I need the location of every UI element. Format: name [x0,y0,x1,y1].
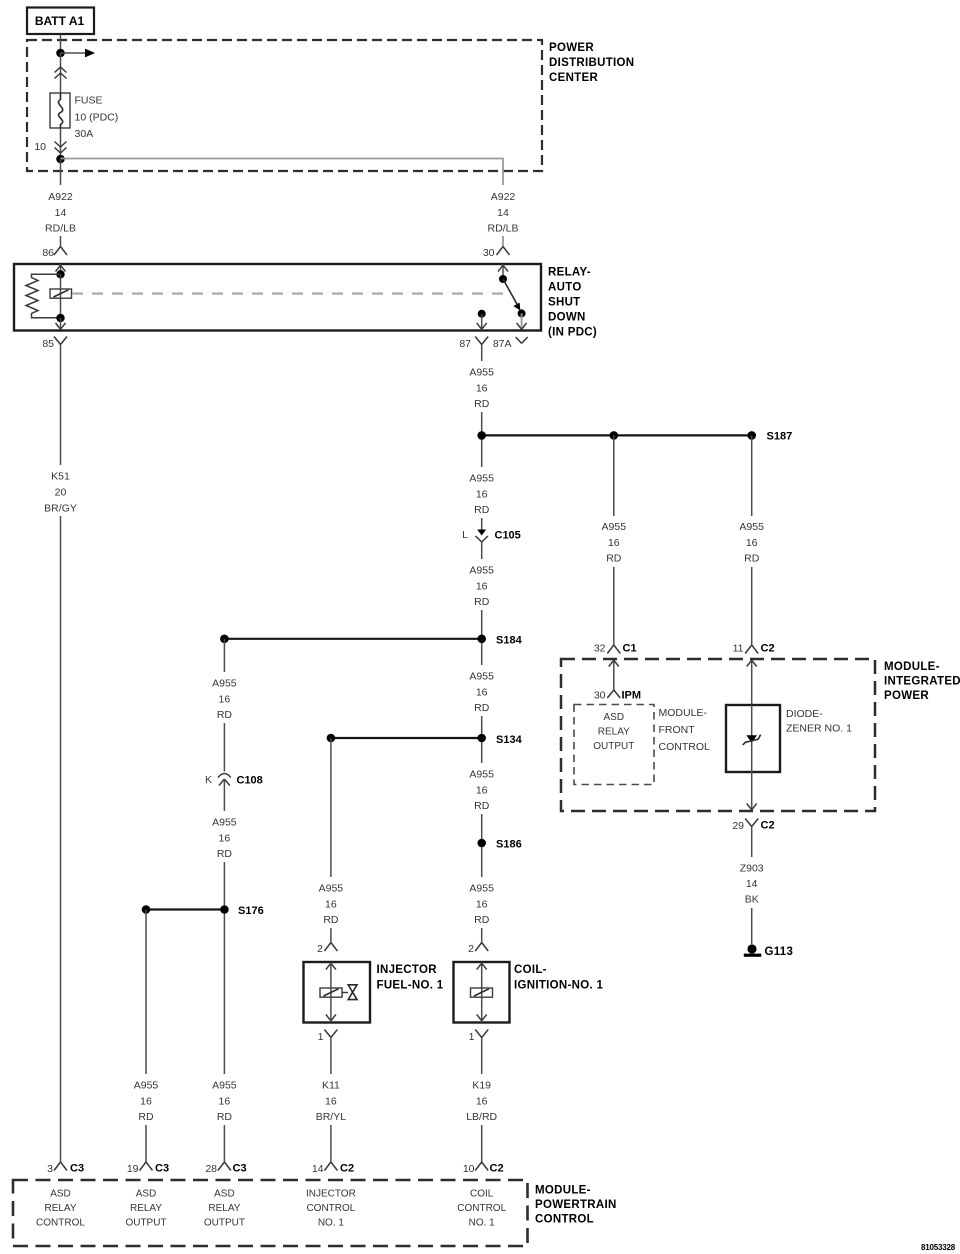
svg-text:BK: BK [745,894,759,906]
label RELAY-AUTO SHUT DOWN (IN PDC) [548,267,597,339]
svg-text:10: 10 [34,141,46,153]
svg-text:POWERTRAIN: POWERTRAIN [535,1199,617,1211]
svg-text:BATT A1: BATT A1 [35,14,85,28]
svg-text:A955: A955 [212,1080,237,1092]
label ASD RELAY CONTROL [36,1189,85,1229]
arrow feed to other circuits [61,49,96,58]
svg-text:SHUT: SHUT [548,297,581,309]
asd relay output inner dashed box [574,705,654,785]
svg-text:S187: S187 [767,431,793,443]
label COIL- IGNITION-NO. 1 [514,964,603,992]
wire label A955 16 RD (S187 to C2) [732,516,772,567]
wire label A955 16 RD (S134 to S186) [462,763,502,814]
svg-text:16: 16 [219,694,231,706]
svg-text:RD: RD [138,1111,154,1123]
label MODULE- POWERTRAIN CONTROL [535,1185,617,1226]
svg-text:C1: C1 [623,643,637,655]
injector solenoid coil [320,988,342,997]
svg-text:2: 2 [468,943,474,955]
svg-text:A955: A955 [469,473,494,485]
svg-text:30A: 30A [75,128,94,140]
svg-text:S184: S184 [496,635,523,647]
wire injector pin 1 to PCM pin 14 [330,1038,332,1163]
svg-text:C3: C3 [70,1163,84,1175]
svg-text:A955: A955 [469,769,494,781]
svg-text:CONTROL: CONTROL [306,1203,355,1214]
svg-text:2: 2 [317,943,323,955]
wire pin 29 to ground [751,827,753,945]
svg-text:16: 16 [140,1096,152,1108]
pin 1 connector injector [318,1030,338,1044]
connector C2 pin 10 [463,1162,504,1175]
connector C3 pin 3 [47,1162,84,1175]
svg-text:C2: C2 [761,643,775,655]
connector C2 pin 11 [733,643,775,655]
wire S176 to PCM pin 19 [145,910,147,1163]
splice line S176 [146,908,224,910]
svg-text:28: 28 [205,1163,217,1175]
svg-text:86: 86 [42,247,54,259]
svg-text:LB/RD: LB/RD [466,1111,497,1123]
svg-text:RD: RD [474,800,490,812]
svg-text:ASD: ASD [214,1189,235,1200]
svg-text:A955: A955 [469,883,494,895]
svg-text:RD: RD [217,848,233,860]
svg-text:14: 14 [746,878,758,890]
node S187 middle junction [610,431,619,440]
label DIODE- ZENER NO. 1 [786,708,852,735]
svg-text:3: 3 [47,1163,53,1175]
label MODULE- FRONT CONTROL [659,707,710,753]
svg-text:C2: C2 [340,1163,354,1175]
svg-text:RD: RD [217,1111,233,1123]
connector chevrons below fuse [55,142,67,154]
svg-text:MODULE-: MODULE- [884,661,940,673]
svg-text:16: 16 [476,581,488,593]
pin 2 connector coil [468,943,488,956]
wire BATT A1 to junction [60,35,62,54]
svg-text:ZENER NO. 1: ZENER NO. 1 [786,723,852,735]
svg-text:S176: S176 [238,905,264,917]
svg-text:RELAY: RELAY [598,727,630,738]
svg-text:A955: A955 [469,367,494,379]
svg-text:K: K [205,774,212,786]
pin 85 exit arrow [56,318,66,330]
svg-text:20: 20 [55,487,67,499]
label COIL CONTROL NO. 1 [457,1189,506,1229]
connector C3 pin 28 [205,1162,246,1175]
connector C2 pin 29 [732,819,774,833]
wire coil branch [60,274,62,318]
wire feed across PDC to relay pin 30 [61,159,504,248]
svg-text:K51: K51 [51,471,70,483]
svg-text:30: 30 [594,690,606,702]
svg-text:CONTROL: CONTROL [659,741,710,753]
svg-text:RD/LB: RD/LB [45,223,76,235]
svg-text:G113: G113 [765,946,794,958]
svg-text:87A: 87A [493,338,512,350]
wire junction to fuse [60,53,62,93]
svg-text:RD: RD [606,553,622,565]
IPM entry arrow pin 32 [609,660,619,690]
svg-text:A955: A955 [469,565,494,577]
node contact 87A [518,309,526,317]
node fuse output junction [56,155,65,164]
svg-text:16: 16 [219,1096,231,1108]
node S187 [747,431,756,440]
svg-text:INJECTOR: INJECTOR [306,1189,356,1200]
node battery feed junction [56,49,65,58]
svg-text:81053328: 81053328 [921,1243,956,1252]
svg-text:INJECTOR: INJECTOR [377,964,438,976]
node S186 [477,839,486,848]
svg-text:10: 10 [463,1163,475,1175]
svg-text:A955: A955 [212,817,237,829]
svg-text:INTEGRATED: INTEGRATED [884,676,960,688]
svg-text:MODULE-: MODULE- [659,707,708,719]
coil internal wire and arrows [477,962,487,1022]
svg-text:RELAY: RELAY [208,1203,240,1214]
wire S134 to injector pin 2 [330,738,332,943]
node S184 [477,635,486,644]
wire label A955 16 RD (C108 to S176) [205,811,245,862]
svg-text:A955: A955 [602,521,627,533]
svg-text:16: 16 [476,899,488,911]
pin 1 connector coil [469,1030,489,1044]
pin 87A connector [493,337,528,350]
svg-text:COIL-: COIL- [514,964,547,976]
svg-text:BR/YL: BR/YL [316,1111,347,1123]
svg-text:14: 14 [312,1163,324,1175]
svg-text:RELAY-: RELAY- [548,267,591,279]
svg-text:C2: C2 [490,1163,504,1175]
connector C3 pin 19 [127,1162,169,1175]
fuse F10 [50,93,70,128]
svg-text:85: 85 [42,338,54,350]
svg-text:16: 16 [608,537,620,549]
label ASD RELAY OUTPUT pin 19 [125,1189,166,1229]
pin 87 connector [459,337,488,351]
connector C105 pin L [462,519,521,542]
wire label A955 16 RD (S187 to C1) [594,516,634,567]
wire label Z903 14 BK [732,857,772,908]
wire label A922 14 RD/LB (right) [482,185,525,236]
node S187 left junction [477,431,486,440]
resistor relay coil shunt [26,274,61,318]
svg-text:16: 16 [476,383,488,395]
connector IPM pin 30 [594,690,641,702]
svg-text:A922: A922 [491,191,516,203]
label MODULE- INTEGRATED POWER [884,661,960,702]
relay actuator dashed link [72,292,505,294]
svg-text:11: 11 [733,643,744,655]
wire label A955 16 RD (C105 to S184) [462,559,502,610]
svg-text:C2: C2 [761,820,775,832]
svg-text:Z903: Z903 [740,863,764,875]
value label FUSE 10 (PDC) 30A [75,95,119,141]
svg-text:A955: A955 [212,678,237,690]
svg-text:RD: RD [217,709,233,721]
svg-text:32: 32 [594,643,606,655]
svg-text:RELAY: RELAY [130,1203,162,1214]
svg-text:29: 29 [732,820,744,832]
svg-text:16: 16 [219,833,231,845]
svg-text:(IN PDC): (IN PDC) [548,327,597,339]
wire C108 to PCM pin 28 [223,779,225,1163]
zener diode element D1 [743,705,761,772]
svg-text:14: 14 [497,207,509,219]
svg-text:A955: A955 [739,521,764,533]
svg-text:CENTER: CENTER [549,72,598,84]
wire pin 85 to PCM pin 3 [60,345,62,1163]
wire label A955 16 RD (S134 to injector) [311,877,351,928]
pin 85 connector [42,337,67,351]
svg-text:16: 16 [476,687,488,699]
connector C2 pin 14 [312,1162,354,1175]
svg-text:RD: RD [474,596,490,608]
svg-text:OUTPUT: OUTPUT [125,1218,166,1229]
module integrated power dashed box [561,659,875,811]
svg-text:RD: RD [474,702,490,714]
label ASD RELAY OUTPUT [593,712,634,752]
svg-text:CONTROL: CONTROL [535,1214,594,1226]
svg-text:RELAY: RELAY [44,1203,76,1214]
ground G113 [744,944,793,958]
wire label K11 16 BR/YL [309,1074,353,1125]
svg-text:RD: RD [474,504,490,516]
pin 86 entry arrow [56,264,66,274]
module powertrain control dashed box [13,1180,528,1246]
svg-text:OUTPUT: OUTPUT [593,741,634,752]
wire coil pin 1 to PCM pin 10 [481,1038,483,1163]
svg-text:NO. 1: NO. 1 [318,1218,345,1229]
svg-text:10 (PDC): 10 (PDC) [75,112,119,124]
injector fuel no.1 box [304,962,371,1023]
svg-text:COIL: COIL [470,1189,494,1200]
node switch common 30 [499,275,507,283]
wire label K51 20 BR/GY [39,465,82,516]
wire pin 87 down to C105 [481,345,483,520]
label INJECTOR CONTROL NO. 1 [306,1189,356,1229]
svg-text:IGNITION-NO. 1: IGNITION-NO. 1 [514,980,603,992]
diode zener no.1 box [726,705,780,772]
svg-text:C3: C3 [233,1163,247,1175]
battery feed box BATT A1 [27,8,94,35]
svg-text:DOWN: DOWN [548,312,586,324]
label POWER DISTRIBUTION CENTER [549,42,634,84]
svg-text:A922: A922 [48,191,73,203]
switch arm relay contact [503,279,520,311]
wire label K19 16 LB/RD [460,1074,504,1125]
svg-text:K19: K19 [472,1080,491,1092]
svg-text:19: 19 [127,1163,139,1175]
svg-text:AUTO: AUTO [548,282,582,294]
svg-text:FUEL-NO. 1: FUEL-NO. 1 [377,980,444,992]
svg-text:DISTRIBUTION: DISTRIBUTION [549,57,634,69]
svg-text:16: 16 [746,537,758,549]
node S184 left junction [220,635,229,644]
node relay coil top junction [56,270,64,278]
coil primary winding symbol [471,988,493,997]
wire S184 to C108 [223,639,225,772]
svg-text:16: 16 [325,1096,337,1108]
wire C105 to injector pin 2 [481,542,483,944]
wire label A955 16 RD (S184 to C108) [205,672,245,723]
svg-text:A955: A955 [469,671,494,683]
svg-text:MODULE-: MODULE- [535,1185,591,1197]
svg-text:NO. 1: NO. 1 [469,1218,496,1229]
splice line S187 [482,434,752,436]
IPM entry arrow pin 11 [747,660,757,705]
svg-text:RD/LB: RD/LB [488,223,519,235]
wire S187 to C2 pin 11 [751,435,753,645]
svg-text:RD: RD [744,553,760,565]
pin 87 exit arrow [477,314,487,330]
pin 86 connector [42,247,67,260]
svg-text:S134: S134 [496,734,523,746]
svg-text:C108: C108 [237,775,263,787]
svg-text:C105: C105 [495,530,521,542]
wire S187 to C1 pin 32 [613,435,615,645]
wire label A955 16 RD (S187 to C105) [462,467,502,518]
power distribution center dashed box [27,40,542,171]
svg-text:A955: A955 [319,883,344,895]
wire label A922 14 RD/LB (left) [39,185,82,236]
node contact 87 [478,310,486,318]
node S176 left junction [142,905,151,914]
svg-text:ASD: ASD [136,1189,157,1200]
svg-text:BR/GY: BR/GY [44,503,77,515]
relay coil element [50,289,72,298]
injector internal wire and arrows [326,962,336,1022]
pin 87A exit arrow [517,313,527,329]
svg-text:ASD: ASD [50,1189,71,1200]
splice line S184 [224,638,481,640]
svg-text:K11: K11 [322,1080,340,1092]
svg-text:30: 30 [483,247,495,259]
svg-text:RD: RD [323,914,339,926]
wire label A955 16 RD (S184 to S134) [462,665,502,716]
svg-text:POWER: POWER [884,690,929,702]
svg-text:DIODE-: DIODE- [786,708,823,720]
node relay coil bottom junction [56,314,64,322]
node S134 [477,734,486,743]
wire label A955 16 RD (C108 to pin 28) [205,1074,245,1125]
connector chevrons above fuse [55,67,67,79]
svg-text:1: 1 [318,1031,324,1043]
svg-text:S186: S186 [496,839,522,851]
svg-text:16: 16 [476,785,488,797]
svg-text:ASD: ASD [604,712,625,723]
connector C1 pin 32 [594,643,637,655]
svg-text:IPM: IPM [622,690,642,702]
coil ignition no.1 box [454,962,510,1023]
svg-text:16: 16 [476,1096,488,1108]
pin 30 entry arrow [498,264,508,279]
wire label A955 16 RD (S176 to pin 19) [126,1074,166,1125]
label INJECTOR FUEL-NO. 1 [377,964,444,992]
svg-text:16: 16 [476,489,488,501]
label ASD RELAY OUTPUT pin 28 [204,1189,245,1229]
wire junction down to relay pin 86 [60,159,62,247]
svg-text:L: L [462,529,468,541]
node S134 left junction [327,734,336,743]
relay auto shut down box [14,264,541,331]
svg-text:14: 14 [55,207,67,219]
node S176 [220,905,229,914]
svg-text:1: 1 [469,1031,475,1043]
svg-text:87: 87 [459,338,471,350]
IPM exit arrow to pin 29 [747,772,757,810]
pin 30 connector [483,247,510,260]
pin 2 connector injector [317,943,337,956]
svg-text:RD: RD [474,398,490,410]
svg-text:16: 16 [325,899,337,911]
wire label A955 16 RD (S186 to coil) [462,877,502,928]
wire label A955 16 RD (87 to S187) [462,361,502,412]
svg-text:RD: RD [474,914,490,926]
svg-text:POWER: POWER [549,42,594,54]
svg-text:C3: C3 [155,1163,169,1175]
svg-text:FUSE: FUSE [75,95,103,107]
svg-text:CONTROL: CONTROL [457,1203,506,1214]
connector C108 pin K [205,774,263,787]
wire fuse to junction [60,128,62,159]
svg-text:FRONT: FRONT [659,724,696,736]
svg-text:A955: A955 [134,1080,159,1092]
splice line S134 [331,737,482,739]
svg-text:OUTPUT: OUTPUT [204,1218,245,1229]
svg-text:CONTROL: CONTROL [36,1218,85,1229]
injector valve symbol [342,985,357,1000]
